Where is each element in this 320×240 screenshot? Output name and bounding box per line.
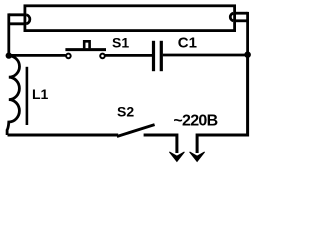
left mains terminal arrowhead <box>169 152 184 162</box>
node B junction dot <box>244 51 251 58</box>
left vertical wire from electrode to node A <box>7 13 10 55</box>
pushbutton S1 right contact circle <box>100 54 105 59</box>
right mains terminal arrowhead <box>190 152 205 162</box>
svg-text:L1: L1 <box>32 86 49 102</box>
wire node A to S1 left contact <box>9 54 66 57</box>
right electrode top pin wire <box>233 12 247 15</box>
inductor L1 coil (choke) <box>7 56 19 135</box>
svg-text:S2: S2 <box>117 104 134 120</box>
wire node B down and to right mains terminal <box>197 55 248 153</box>
inductor L1 core line <box>26 67 29 125</box>
capacitor C1 right plate <box>160 41 163 71</box>
right filament electrode arc <box>230 13 233 21</box>
capacitor C1 left plate <box>152 41 155 71</box>
switch S2 blade <box>117 125 155 137</box>
pushbutton S1 contact bar <box>65 48 106 51</box>
fluorescent tube EL1 body <box>25 6 235 31</box>
pushbutton S1 actuator stem <box>84 41 89 48</box>
wire S2 right contact to left mains terminal <box>144 135 177 153</box>
svg-text:C1: C1 <box>178 34 197 51</box>
svg-text:~220В: ~220В <box>173 113 217 130</box>
wire S1 right contact to C1 <box>105 54 152 57</box>
right vertical wire from electrode to node B <box>246 12 249 55</box>
wire C1 to node B <box>163 54 248 57</box>
left electrode bottom pin wire <box>9 22 26 25</box>
left electrode top pin wire <box>9 13 26 16</box>
pushbutton S1 left contact circle <box>66 54 71 59</box>
bottom wire L1 to S2 left contact <box>8 134 119 137</box>
svg-text:S1: S1 <box>112 34 129 50</box>
right electrode bottom pin wire <box>233 19 247 22</box>
left filament electrode arc <box>26 15 30 24</box>
node A junction dot <box>6 52 12 58</box>
